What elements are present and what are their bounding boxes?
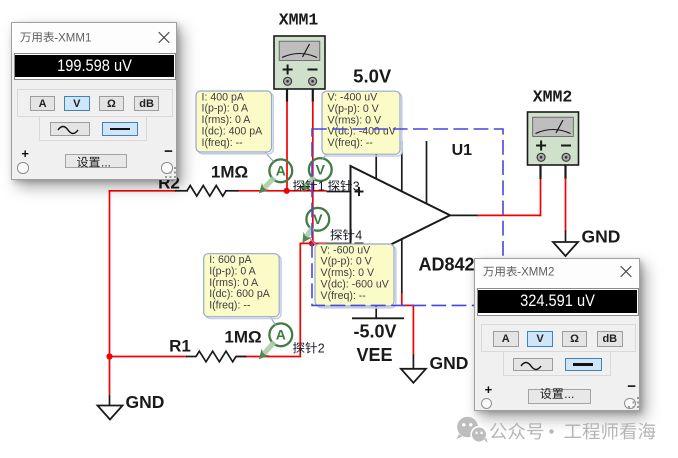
- svg-text:I: 400 pA: I: 400 pA: [202, 91, 245, 103]
- svg-text:R1: R1: [169, 337, 191, 356]
- panel1 close button: [159, 32, 170, 43]
- panel2 设置 button text: [540, 387, 574, 401]
- watermark text 公众号·工程师看海: [490, 422, 655, 439]
- svg-text:I(rms): 0 A: I(rms): 0 A: [202, 114, 252, 126]
- svg-text:V(dc): -600 uV: V(dc): -600 uV: [321, 279, 390, 291]
- svg-text:GND: GND: [126, 392, 165, 412]
- svg-text:V(freq): --: V(freq): --: [321, 290, 367, 302]
- junction: R1/R2/GND node: [106, 353, 112, 359]
- op-amp top power pin (to 5.0V, hidden behind box): [375, 96, 377, 179]
- voltage probe 探针3 (V): [301, 158, 332, 192]
- svg-text:XMM1: XMM1: [279, 11, 319, 30]
- wire: XMM2 minus to GND3: [564, 158, 566, 242]
- svg-text:GND: GND: [582, 227, 621, 247]
- svg-text:I(p-p): 0 A: I(p-p): 0 A: [209, 265, 256, 277]
- wire: inverting node down to R1 row: [299, 243, 301, 358]
- resistor R1 leads: [186, 356, 247, 358]
- resistor R2 body: [187, 186, 226, 197]
- svg-text:V(p-p): 0 V: V(p-p): 0 V: [321, 256, 373, 268]
- svg-text:I: 600 pA: I: 600 pA: [209, 254, 252, 266]
- wire: R2 row left segment: [109, 190, 176, 192]
- VEE power symbol: [352, 306, 404, 318]
- svg-text:I(dc): 600 pA: I(dc): 600 pA: [209, 288, 271, 300]
- leader line box3->probe4: [310, 239, 316, 246]
- watermark wechat logo: [457, 417, 488, 443]
- wire: left vertical node (R2 left to R1 left): [109, 190, 111, 357]
- current probe 探针1 (A): [259, 159, 292, 193]
- svg-text:AD842: AD842: [418, 255, 474, 275]
- svg-text:A: A: [276, 327, 286, 343]
- probe2 readout box (I 600pA): [204, 254, 281, 319]
- panel2 resize grip: [628, 397, 639, 408]
- multimeter icon XMM2: [528, 112, 579, 165]
- svg-text:U1: U1: [452, 142, 473, 159]
- multimeter icon XMM1: [274, 36, 325, 89]
- wire: R2 right to op-amp + node: [238, 190, 327, 192]
- wire: R1 row left segment: [109, 356, 187, 358]
- svg-text:V: V: [313, 211, 323, 227]
- svg-text:1MΩ: 1MΩ: [224, 328, 261, 347]
- svg-text:XMM2: XMM2: [533, 88, 573, 107]
- svg-text:I(dc): 400 pA: I(dc): 400 pA: [202, 126, 264, 138]
- probe1 readout box (I 400pA): [196, 91, 273, 154]
- svg-text:I(rms): 0 A: I(rms): 0 A: [209, 277, 259, 289]
- resistor R1 body: [196, 351, 236, 362]
- junction: XMM1- on inverting node: [309, 240, 315, 246]
- leader line box1->probe1: [264, 151, 274, 162]
- svg-text:A: A: [276, 163, 286, 179]
- panel1 resize grip: [165, 167, 176, 178]
- blue dashed rectangle around op-amp: [312, 129, 503, 305]
- wire: XMM1 minus lead down to inverting node: [312, 82, 314, 243]
- junction: XMM1+ on non-inverting node: [284, 188, 290, 194]
- op-amp offset pins: [402, 141, 427, 204]
- svg-text:-5.0V: -5.0V: [353, 322, 396, 342]
- svg-text:I(p-p): 0 A: I(p-p): 0 A: [202, 103, 249, 115]
- wire: GND1 stem: [109, 357, 111, 406]
- panel1 title 万用表-XMM1: [20, 32, 91, 45]
- wire: inverting input node horizontal: [300, 242, 326, 244]
- voltage probe 探针4 (V): [302, 208, 329, 243]
- probe3 readout box (V -400uV): [322, 91, 402, 156]
- svg-text:V(dc): -400 uV: V(dc): -400 uV: [328, 126, 397, 138]
- svg-text:GND: GND: [430, 353, 469, 373]
- instrument panel 万用表-XMM1: [11, 22, 177, 180]
- wire: XMM1 plus lead: [286, 82, 288, 192]
- svg-text:I(freq): --: I(freq): --: [202, 137, 244, 149]
- svg-text:5.0V: 5.0V: [353, 66, 392, 87]
- op-amp + and - input marks: [355, 187, 364, 244]
- svg-text:V(freq): --: V(freq): --: [328, 137, 374, 149]
- resistor R2 leads: [175, 190, 239, 192]
- svg-text:V: V: [316, 161, 326, 177]
- wire: op-amp pin5 to GND2: [401, 239, 414, 369]
- probe4 readout box (V -600uV): [315, 244, 396, 308]
- panel2 close button: [621, 266, 632, 277]
- svg-text:V: -400 uV: V: -400 uV: [328, 92, 379, 104]
- leader line box4->probe2: [270, 316, 276, 326]
- panel2 title 万用表-XMM2: [483, 266, 554, 279]
- panel1 设置 button text: [77, 156, 111, 170]
- wire: R1 right segment to corner: [236, 356, 301, 358]
- svg-text:V(rms): 0 V: V(rms): 0 V: [321, 267, 375, 279]
- svg-text:VEE: VEE: [356, 345, 392, 365]
- svg-text:I(freq): --: I(freq): --: [209, 300, 251, 312]
- op-amp U1 triangle: [351, 166, 451, 265]
- label 探针4: [330, 229, 362, 243]
- instrument panel 万用表-XMM2: [474, 258, 640, 412]
- label 探针3: [328, 179, 360, 193]
- label 探针1: [293, 179, 325, 193]
- svg-text:V(rms): 0 V: V(rms): 0 V: [328, 114, 382, 126]
- ground GND3 (right, XMM2): [553, 227, 620, 257]
- wire: op-amp output to XMM2: [450, 158, 541, 216]
- label 探针2: [293, 342, 325, 356]
- svg-text:1MΩ: 1MΩ: [211, 163, 248, 182]
- current probe 探针2 (A): [259, 323, 292, 359]
- svg-text:V: -600 uV: V: -600 uV: [321, 244, 372, 256]
- ground GND2 (below op-amp): [401, 353, 468, 383]
- op-amp input pins: [327, 192, 351, 244]
- svg-text:V(p-p): 0 V: V(p-p): 0 V: [328, 103, 380, 115]
- op-amp VEE pin: [375, 252, 377, 307]
- leader line box2->probe3: [322, 154, 328, 160]
- ground GND1 (bottom left): [98, 392, 165, 420]
